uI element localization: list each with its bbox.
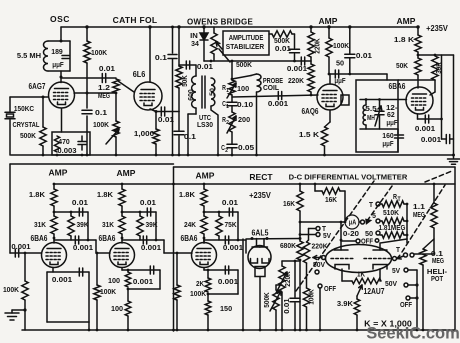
svg-text:T: T (396, 245, 400, 254)
box IF transformer 5.5MH 12-62 (356, 80, 398, 152)
capacitor 0.1 bypass in plate line (82, 109, 92, 111)
capacitor 0.01 feedback stage 3 (204, 211, 238, 213)
switch terminals T and 5V input (316, 227, 320, 231)
svg-text:12AU7: 12AU7 (363, 287, 384, 296)
svg-text:6BA6: 6BA6 (181, 234, 198, 243)
wire 6AG7 cathode down (61, 109, 63, 133)
svg-text:LS30: LS30 (197, 120, 213, 129)
svg-text:1: 1 (226, 104, 229, 110)
wire grid of 6L6 (118, 81, 134, 92)
potentiometer R1 100 (229, 80, 235, 95)
svg-text:POT: POT (431, 274, 443, 283)
svg-text:0.001: 0.001 (415, 124, 435, 133)
12AU7 left triode cathode (335, 265, 349, 270)
svg-text:6L6: 6L6 (133, 70, 146, 79)
svg-text:0.01: 0.01 (275, 44, 291, 53)
inductor 5.5MH adjustable (365, 100, 367, 106)
svg-text:0.1: 0.1 (95, 108, 107, 117)
svg-text:0.001: 0.001 (421, 135, 441, 144)
wire tank bottom node (360, 128, 398, 130)
svg-text:500K: 500K (262, 292, 271, 308)
svg-text:100: 100 (108, 276, 120, 285)
wire stage3 cathode (203, 268, 205, 271)
wire 50K branch from rail (178, 27, 180, 66)
capacitor 0.01 cathode coupling (160, 107, 162, 116)
switch wiper from meter (359, 221, 361, 223)
svg-text:1.8K: 1.8K (179, 190, 196, 199)
resistor 150 stage3 cathode lower (207, 294, 209, 301)
capacitor 0.001 coupling stage 1 (54, 239, 96, 241)
resistor 100K input grid (24, 253, 26, 281)
svg-text:50K: 50K (180, 75, 189, 87)
svg-text:100K: 100K (333, 41, 350, 50)
svg-text:3.9K: 3.9K (337, 299, 354, 308)
wire to meter (300, 221, 345, 223)
resistor 39K stage 1 (70, 212, 72, 216)
resistor 220K upper (310, 27, 312, 32)
wire 12AU7 right plate (380, 239, 407, 250)
resistor 500K horizontal (269, 33, 272, 35)
wire bottom ground rail (22, 329, 455, 331)
svg-text:μμF: μμF (386, 120, 398, 127)
svg-text:34: 34 (191, 39, 199, 48)
wire crystal to 6AG7 grid (9, 97, 11, 111)
12AU7 left triode plate (334, 249, 348, 251)
wire bridge to grid with 0.001 capacitor (232, 95, 318, 97)
svg-text:50V: 50V (385, 279, 397, 288)
svg-text:AMP: AMP (196, 171, 215, 181)
resistor 100K stage3 grid (176, 252, 179, 255)
resistor 220K lower (310, 61, 312, 64)
svg-text:100: 100 (237, 84, 249, 93)
resistor 50K (176, 66, 182, 88)
wire bottom ground rail of top section (11, 154, 454, 156)
svg-text:+235V: +235V (426, 24, 448, 33)
wire top +235V supply rail (61, 26, 419, 28)
svg-text:1.8K: 1.8K (29, 190, 46, 199)
svg-text:μμF: μμF (52, 60, 64, 69)
capacitor 0.1 cathode bypass (178, 112, 180, 131)
tube 6AG7 oscillator (49, 82, 75, 108)
wire switch bus to rail (416, 270, 418, 330)
svg-text:50: 50 (365, 229, 373, 238)
svg-text:MH: MH (367, 113, 375, 122)
svg-text:0.01: 0.01 (197, 62, 213, 71)
box border of voltmeter unit (174, 166, 456, 168)
svg-text:1: 1 (226, 88, 229, 94)
resistor 39K stage 2 (139, 212, 141, 216)
wire 6L6 cathode (150, 109, 156, 112)
svg-text:50K: 50K (396, 61, 409, 70)
resistor 470 cathode (54, 136, 59, 152)
svg-text:6AL5: 6AL5 (252, 229, 269, 238)
svg-text:AMP: AMP (319, 16, 338, 26)
svg-text:200: 200 (238, 115, 250, 124)
wire stage2 to stage3 grid (164, 252, 192, 254)
wire 12AU7 grid left wiper (322, 256, 326, 260)
wire ground bus right (453, 55, 455, 158)
probe coil (232, 76, 251, 80)
wire OSC rail drop to tank (60, 27, 62, 41)
tube 6BA6 stage 3 (192, 243, 217, 268)
capacitor 0.001 coupling out (424, 115, 426, 123)
wire R1 branch (231, 61, 233, 80)
svg-text:2: 2 (226, 120, 229, 126)
wire bridge top node (204, 60, 311, 62)
svg-text:50: 50 (208, 88, 217, 96)
svg-text:1.5 K: 1.5 K (299, 130, 320, 139)
wire tank to 6AG7 grid cap (60, 71, 62, 83)
capacitor C2 0.05 (231, 132, 233, 144)
resistor 16K horizontal (314, 183, 317, 186)
svg-text:100K: 100K (93, 120, 110, 129)
capacitor variable 12-62 uuF (379, 100, 381, 110)
wire crystal to rail (9, 120, 11, 155)
resistor 1.8K (417, 27, 419, 35)
svg-text:0.05: 0.05 (238, 143, 254, 152)
transformer core (201, 76, 203, 108)
resistor 220K middle (303, 242, 309, 263)
svg-text:6BA6: 6BA6 (99, 234, 116, 243)
capacitor 0.001 stage2 bypass (128, 269, 160, 271)
resistor 31K stage 2 (119, 216, 125, 234)
capacitor 0.001 coupling stage 3 (204, 239, 246, 241)
resistor 3.9K (357, 285, 362, 296)
capacitor 0.001 stage3 bypass (208, 269, 238, 271)
svg-text:OFF: OFF (324, 284, 336, 293)
switch T pair (404, 253, 408, 257)
svg-text:1.81MEG: 1.81MEG (379, 223, 406, 232)
wire +235V rail of lower unit (54, 183, 455, 185)
wire tank top node (360, 99, 407, 101)
tube 6L6 cathode follower (134, 82, 162, 110)
wire to IF transformer box (350, 73, 387, 75)
box border of lower unit left (10, 163, 174, 165)
svg-text:0.001: 0.001 (73, 243, 93, 252)
12AU7 right triode cathode (373, 265, 387, 270)
svg-text:50: 50 (336, 59, 344, 68)
svg-text:31K: 31K (102, 220, 115, 229)
svg-text:0.01: 0.01 (140, 198, 156, 207)
svg-text:62: 62 (387, 110, 395, 119)
svg-text:5V: 5V (392, 266, 400, 275)
transformer UTC LS30 primary 600 (195, 65, 197, 76)
switch contacts T 5 50 OFF (376, 202, 380, 206)
wire 6L6 plate to rail (149, 27, 151, 82)
resistor 100 stage2 cathode lower (125, 301, 131, 316)
svg-text:100K: 100K (307, 289, 316, 305)
wire probe coil to rail (256, 92, 258, 155)
svg-text:OFF: OFF (400, 300, 412, 309)
switch terminal OFF left (318, 284, 322, 288)
switch wiper to 12AU7 right grid (393, 257, 397, 261)
12AU7 right triode plate (373, 249, 387, 251)
ground symbol top right (452, 154, 455, 157)
junction dots on ground rail (42, 154, 45, 157)
svg-text:SeekIC.com: SeekIC.com (366, 325, 460, 343)
svg-text:1.8 K: 1.8 K (394, 35, 415, 44)
wire 100K down the bypass chain (86, 63, 88, 108)
svg-text:0.001: 0.001 (133, 277, 153, 286)
wire plate to coupling (329, 74, 331, 84)
resistor 1.2 MEG (113, 79, 119, 93)
svg-text:μμF: μμF (382, 141, 394, 148)
12AU7 right triode grid (364, 258, 390, 260)
resistor 24K stage 3 (201, 216, 207, 234)
svg-text:600: 600 (186, 89, 195, 101)
resistor 500K oscillator bias (42, 97, 44, 127)
svg-text:0.01: 0.01 (282, 298, 291, 313)
resistor 2K stage3 cathode (207, 270, 209, 278)
box cathode network of 6AG7 (52, 132, 90, 155)
resistor 1,000 cathode load (155, 112, 157, 130)
svg-text:CRYSTAL: CRYSTAL (13, 120, 40, 129)
capacitor 0.01 with label (294, 261, 296, 297)
capacitor 0.01 to transformer (179, 64, 196, 66)
svg-text:COIL: COIL (263, 83, 279, 92)
wire plate feedback (398, 79, 435, 81)
svg-text:D-C DIFFERENTIAL VOLTMETER: D-C DIFFERENTIAL VOLTMETER (289, 173, 408, 182)
wire stage3 to 6AL5 (246, 238, 300, 241)
svg-text:6AQ6: 6AQ6 (302, 107, 319, 116)
wire stage2 cathode (121, 268, 123, 271)
wire 12AU7 left plate to meter line (340, 222, 342, 250)
wire coupling to next stage 2 (163, 240, 165, 253)
capacitor 0.01 from rail (349, 27, 351, 54)
svg-text:2K: 2K (196, 279, 205, 288)
svg-text:1,000: 1,000 (134, 129, 154, 138)
resistor 39K (418, 54, 454, 56)
svg-text:0.01: 0.01 (72, 198, 88, 207)
wire 1.1MEG to range switch (433, 228, 435, 254)
wire coupling to next stage 3 (245, 240, 247, 253)
capacitor 0.01 feedback stage 1 (54, 211, 88, 213)
svg-text:100K: 100K (3, 285, 20, 294)
svg-text:AMP: AMP (397, 16, 416, 26)
resistor 50K (417, 52, 419, 58)
capacitor 0.001 coupling stage 2 (122, 239, 164, 241)
resistor 100K plate load (328, 27, 330, 38)
tank circuit box with inductor 5.5MH (48, 40, 70, 42)
tube 6AL5 rectifier (248, 246, 271, 269)
svg-text:1.8K: 1.8K (97, 190, 114, 199)
resistor 1.8K stage 3 (203, 183, 206, 186)
svg-text:680K: 680K (280, 241, 297, 250)
diode IN34 amplitude stabilizer (203, 27, 205, 33)
capacitor 0.001 to ground (441, 119, 443, 139)
svg-text:0.01: 0.01 (99, 64, 115, 73)
resistor 100K rotated (303, 288, 309, 307)
svg-text:AMP: AMP (117, 168, 136, 178)
resistor 1.8K stage 2 (121, 183, 124, 186)
capacitor 0.01 coupling from oscillator (61, 77, 116, 79)
wire secondary bottom to rail (211, 106, 218, 155)
switch contact OFF meter minus (356, 239, 360, 243)
svg-text:0.01: 0.01 (158, 115, 174, 124)
svg-text:220K: 220K (313, 38, 322, 54)
svg-text:75K: 75K (225, 220, 238, 229)
wire right bus of divider (406, 204, 408, 243)
tube 6BA6 stage 2 (110, 243, 135, 268)
svg-text:5V: 5V (323, 231, 331, 240)
svg-text:39K: 39K (146, 220, 159, 229)
svg-text:500K: 500K (20, 131, 37, 140)
svg-text:0.001: 0.001 (287, 64, 307, 73)
dashed switch gang lines (296, 171, 452, 291)
junction dots lower rails (172, 329, 175, 332)
capacitor 0.001 bridge (300, 57, 302, 65)
svg-text:5.5 MH: 5.5 MH (17, 51, 41, 60)
tube 6BA6 stage 1 (42, 243, 67, 268)
tube 12AU7 envelope (326, 245, 392, 273)
svg-text:220K: 220K (288, 76, 305, 85)
resistor 16K vertical (299, 183, 302, 186)
svg-text:μA: μA (349, 220, 356, 227)
capacitor 50 uuF coupling (329, 73, 350, 75)
svg-text:μμF: μμF (334, 78, 346, 85)
label 500K pot with leader (219, 49, 230, 62)
svg-text:100: 100 (111, 304, 123, 313)
capacitor tank 189uuF (62, 55, 69, 57)
resistor 100K stage2 grid (96, 252, 99, 255)
wire stage1 cathode loop (52, 268, 54, 273)
crystal 150KC (5, 111, 15, 113)
svg-text:31K: 31K (34, 220, 47, 229)
svg-text:24K: 24K (184, 220, 197, 229)
svg-text:150: 150 (220, 304, 232, 313)
svg-text:RECT: RECT (249, 172, 273, 182)
tube 6BA6 amplifier (406, 87, 433, 114)
svg-text:MEG: MEG (432, 256, 444, 265)
resistor 100K potentiometer (113, 121, 119, 137)
svg-text:100K: 100K (190, 289, 207, 298)
wire screen bypass line (172, 27, 174, 53)
wire 6BA6 cathode to 0.001 (417, 114, 419, 119)
resistor 31K stage 1 (51, 216, 57, 234)
resistor 1K common cathode (341, 269, 343, 281)
tube 6AQ6 (317, 84, 343, 110)
resistor 100 stage2 cathode upper (127, 270, 129, 272)
svg-text:0.001: 0.001 (223, 243, 243, 252)
svg-text:0.01: 0.01 (356, 51, 372, 60)
ground symbol input (12, 309, 25, 311)
svg-text:0-20: 0-20 (343, 229, 359, 238)
potentiometer 500K amplitude (213, 27, 215, 33)
svg-text:AMPLITUDE: AMPLITUDE (229, 33, 264, 42)
12AU7 left triode grid (331, 258, 353, 260)
svg-text:189: 189 (51, 47, 63, 56)
wire 1.2MEG to 100K pot (115, 93, 117, 121)
svg-text:150KC: 150KC (14, 104, 35, 113)
svg-text:0.001: 0.001 (141, 243, 161, 252)
svg-text:0.001: 0.001 (11, 242, 30, 251)
svg-text:T: T (369, 200, 373, 209)
resistor 1.5K cathode of 6AQ6 (329, 110, 331, 122)
svg-text:MEG: MEG (98, 91, 110, 100)
svg-text:16K: 16K (283, 199, 296, 208)
svg-text:0.10: 0.10 (237, 100, 253, 109)
capacitor C1 0.10 (231, 95, 233, 102)
svg-text:2: 2 (225, 148, 228, 154)
svg-text:0.1: 0.1 (184, 132, 196, 141)
capacitor 0.003 cathode bypass (78, 141, 86, 143)
capacitor 0.01 (294, 34, 296, 48)
svg-text:0.003: 0.003 (57, 146, 76, 155)
svg-text:160: 160 (382, 131, 394, 140)
box AMPLITUDE STABILIZER (223, 31, 269, 55)
transformer UTC LS30 secondary 50 (211, 78, 215, 106)
svg-text:0.001: 0.001 (218, 277, 238, 286)
wire bypass drop (441, 55, 443, 119)
svg-text:16K: 16K (325, 195, 338, 204)
wire coupling to next stage 1 (95, 240, 97, 253)
svg-text:0.1: 0.1 (155, 53, 167, 62)
svg-text:39K: 39K (77, 220, 90, 229)
svg-text:STABILIZER: STABILIZER (226, 42, 265, 51)
svg-text:OSC: OSC (50, 14, 70, 24)
resistor 100K grid leak of 6AG7 (86, 27, 88, 41)
svg-text:1K: 1K (357, 270, 366, 279)
potentiometer 500K (276, 284, 282, 286)
svg-text:100K: 100K (91, 48, 108, 57)
resistor 1.8K stage 1 (53, 183, 56, 186)
wire 6AL5 cathode to rail (259, 277, 261, 331)
svg-text:0.001: 0.001 (268, 99, 288, 108)
potentiometer 220K lower (282, 260, 300, 262)
capacitor 0.01 feedback stage 2 (122, 211, 156, 213)
svg-text:6AG7: 6AG7 (29, 82, 46, 91)
svg-text:100K: 100K (100, 287, 117, 296)
potentiometer 0.1 MEG helipot (423, 239, 434, 249)
svg-text:6BA6: 6BA6 (31, 234, 48, 243)
capacitor 0.001 stage1 output (78, 268, 80, 276)
svg-text:0.01: 0.01 (222, 198, 238, 207)
wire 0.01 branch stage3 to rail (242, 239, 244, 330)
svg-text:AMP: AMP (49, 168, 68, 178)
svg-text:470: 470 (58, 137, 70, 146)
wire 6AG7 plate to divider (74, 92, 116, 94)
resistor 75K stage 3 (218, 212, 220, 216)
capacitor 0.001 input (10, 252, 41, 254)
meter uA 0-20 (345, 215, 359, 229)
svg-text:510K: 510K (383, 208, 400, 217)
wire stage1 to stage2 grid (96, 252, 110, 254)
svg-text:+235V: +235V (249, 191, 271, 200)
resistor 1.1 MEG (433, 183, 436, 186)
svg-text:0.001: 0.001 (52, 275, 72, 284)
svg-text:OWENS BRIDGE: OWENS BRIDGE (187, 18, 253, 27)
svg-text:CATH FOL: CATH FOL (113, 15, 158, 25)
capacitor 0.1 screen bypass (168, 54, 177, 56)
potentiometer R2 200 (229, 112, 235, 132)
switch terminal OFF lower right (406, 296, 410, 300)
